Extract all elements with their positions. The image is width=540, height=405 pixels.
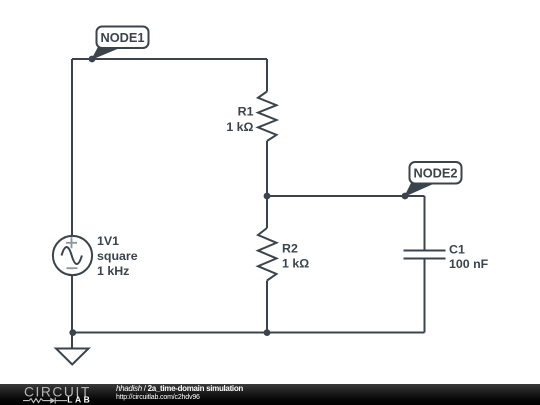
wire top horizontal (72, 58, 267, 60)
logo waveform with diode (23, 398, 67, 404)
node junction dot R2 bottom (264, 329, 271, 336)
footer bar (0, 384, 540, 405)
wire left vertical lower (71, 275, 73, 333)
wire R2 branch upper (266, 196, 268, 228)
wire middle horizontal (267, 195, 425, 197)
ground triangle (56, 349, 89, 365)
resistor R2 (258, 228, 277, 281)
resistor R1 (258, 92, 277, 142)
wire bottom horizontal (72, 332, 425, 334)
svg-text:R1: R1 (238, 105, 254, 119)
footer url (116, 394, 200, 401)
voltage source V1 circle (53, 236, 92, 275)
svg-text:NODE1: NODE1 (100, 30, 144, 45)
V1 sine wave (62, 247, 82, 264)
V1 plus sign (66, 237, 77, 248)
svg-text:square: square (97, 249, 138, 263)
wire left vertical upper (71, 59, 73, 236)
wire R2 branch lower (266, 281, 268, 333)
node junction dot NODE1 (89, 56, 96, 63)
NODE2 flag tail (404, 181, 440, 197)
svg-text:C1: C1 (449, 243, 465, 257)
NODE2 flag box (410, 162, 462, 184)
ground stub (71, 333, 73, 349)
svg-text:NODE2: NODE2 (413, 166, 457, 181)
wire R1 to node (266, 141, 268, 196)
NODE1 flag tail (91, 45, 127, 60)
wire capacitor lower (424, 259, 426, 333)
node junction dot at R1/R2/NODE2 net (264, 193, 271, 200)
svg-text:100 nF: 100 nF (449, 257, 489, 271)
svg-text:1V1: 1V1 (97, 234, 119, 248)
svg-text:1 kΩ: 1 kΩ (226, 120, 253, 134)
V1 minus sign (67, 267, 78, 269)
wire R1 branch upper (266, 59, 268, 92)
node junction dot NODE2 (402, 193, 409, 200)
node junction dot ground (69, 329, 76, 336)
wire capacitor upper (424, 196, 426, 250)
svg-text:1 kΩ: 1 kΩ (282, 257, 309, 271)
NODE1 flag box (97, 27, 149, 49)
CircuitLab logo wordmark (0, 384, 110, 405)
footer byline (116, 384, 243, 393)
svg-text:R2: R2 (282, 242, 298, 256)
svg-text:1 kHz: 1 kHz (97, 264, 129, 278)
capacitor C1 plates (404, 251, 446, 259)
svg-text:LAB: LAB (67, 395, 92, 405)
